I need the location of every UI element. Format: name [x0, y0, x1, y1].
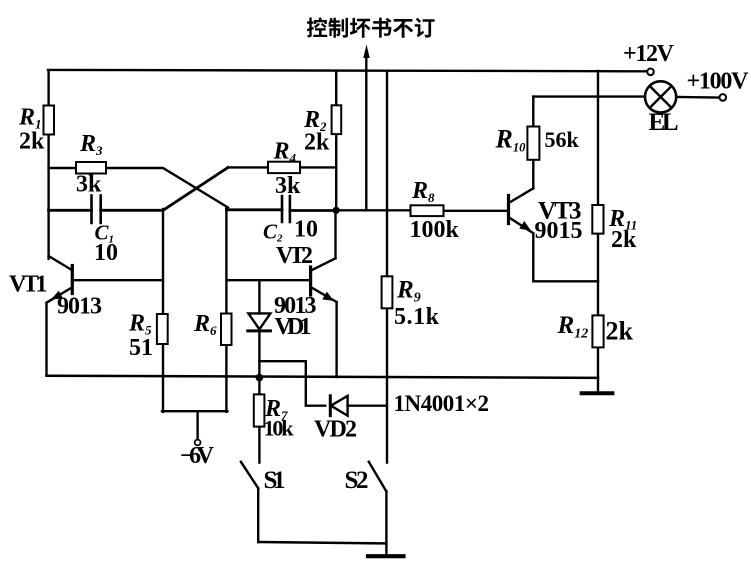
svg-text:VT1: VT1 — [9, 272, 48, 298]
svg-text:S1: S1 — [264, 467, 286, 494]
svg-text:5.1k: 5.1k — [394, 304, 440, 330]
svg-text:2k: 2k — [611, 227, 637, 253]
svg-text:+100V: +100V — [687, 68, 750, 94]
svg-text:10k: 10k — [264, 416, 295, 441]
svg-text:56k: 56k — [545, 127, 580, 152]
svg-text:2k: 2k — [606, 317, 634, 346]
svg-text:100k: 100k — [410, 217, 460, 243]
svg-text:3k: 3k — [275, 173, 301, 199]
svg-text:2k: 2k — [19, 128, 45, 154]
svg-text:VT2: VT2 — [276, 243, 313, 269]
svg-text:9015: 9015 — [535, 218, 583, 244]
svg-text:51: 51 — [129, 335, 153, 361]
svg-text:−6V: −6V — [180, 443, 215, 469]
svg-text:10: 10 — [294, 217, 318, 243]
svg-text:2k: 2k — [304, 130, 330, 156]
svg-text:1N4001×2: 1N4001×2 — [394, 391, 490, 416]
svg-text:9013: 9013 — [57, 294, 102, 320]
svg-text:EL: EL — [649, 109, 679, 136]
svg-text:+12V: +12V — [623, 41, 675, 67]
svg-text:S2: S2 — [345, 467, 369, 494]
svg-text:3k: 3k — [76, 172, 102, 198]
svg-text:VD2: VD2 — [314, 417, 357, 443]
svg-text:10: 10 — [94, 240, 118, 266]
svg-text:VD1: VD1 — [275, 314, 312, 340]
